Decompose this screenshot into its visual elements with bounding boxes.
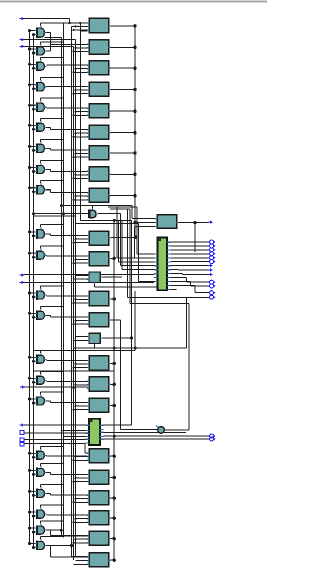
wire U17 in2	[76, 384, 88, 386]
buffer U12	[89, 272, 100, 283]
wire busA to G10	[30, 231, 35, 233]
wire stair8 top	[76, 222, 139, 224]
clock bus vertical lower	[63, 214, 65, 538]
node tap busA G3	[28, 63, 31, 66]
pin DEC1 R10	[167, 277, 171, 279]
wire GM clock top	[92, 206, 94, 208]
register U20	[87, 470, 110, 484]
wire G8 out	[46, 169, 50, 171]
wire clock top G13	[41, 305, 64, 307]
bus vertical x61	[60, 38, 62, 536]
collector bus x135	[134, 26, 136, 237]
wire G7 to U7 in1	[51, 149, 88, 151]
wire rail y208	[110, 208, 130, 210]
node busE tap U4	[75, 89, 77, 91]
wire clock stub G21	[40, 521, 42, 524]
wire DEC1 R8 c	[179, 269, 210, 271]
wire clock stub G12	[40, 286, 42, 289]
node tap busB G4	[32, 87, 35, 90]
output pin O15	[210, 437, 216, 441]
input pin P9	[20, 438, 24, 442]
wire stair9 drop	[129, 209, 131, 304]
node master top tap	[113, 219, 116, 222]
wire G6 out jog	[50, 127, 52, 129]
wire clock top G17	[41, 445, 64, 447]
wire U23 in3	[74, 542, 88, 544]
wire clock stub G4	[40, 78, 42, 81]
output pin Q	[209, 220, 213, 224]
pin DEC2 R5	[100, 438, 104, 440]
node R1 out	[193, 221, 196, 224]
node tap busA G5	[28, 104, 31, 107]
pin DEC1 L2	[154, 257, 158, 259]
node busE tap U18	[75, 405, 77, 407]
wire clock stub G14	[40, 350, 42, 353]
node tap busB G17	[32, 456, 35, 459]
node tap busB G1	[32, 33, 35, 36]
wire U14 in2	[76, 320, 88, 322]
wire G9 out	[46, 189, 50, 191]
AND gate G9	[34, 183, 46, 195]
wire U7 in2	[76, 153, 88, 155]
wire busA to G11	[30, 252, 35, 254]
wire clock top G14	[41, 349, 64, 351]
AND gate G15	[34, 374, 46, 385]
wire U19 in3	[74, 459, 88, 461]
wire busB to G11	[34, 256, 35, 258]
wire clock top G2	[41, 41, 64, 43]
wire G1 out drop	[50, 33, 52, 45]
wire stair1 in	[137, 253, 154, 255]
output pin O1	[210, 240, 216, 244]
wire U11 in3	[74, 262, 88, 264]
wire U11 in2	[76, 259, 88, 261]
wire stair8 drop	[138, 223, 140, 281]
pin DEC1 R8	[167, 269, 171, 271]
node busE tap U14	[75, 320, 77, 322]
input pin P10	[20, 442, 24, 446]
node U19 out junction	[113, 455, 116, 458]
wire G18 out jog	[50, 472, 52, 474]
node U20 out junction	[113, 476, 116, 479]
wire busA to G1	[30, 30, 35, 32]
wire G21 to U23 in1	[51, 535, 88, 537]
wire U19 in1	[85, 452, 88, 454]
node busE tap U5	[75, 111, 77, 113]
AND gate G8	[34, 163, 46, 174]
wire G2 to U2 in1	[51, 43, 88, 45]
wire busB to G4	[34, 88, 35, 90]
wire G9 to U9 in1	[51, 192, 88, 194]
wire clock stub G18	[40, 463, 42, 466]
node busE tap U6	[75, 132, 77, 134]
node tap busA G21	[28, 527, 31, 530]
wire R1 in1	[132, 218, 157, 220]
register U7	[87, 146, 110, 160]
output pin O12	[210, 291, 216, 295]
node U9 out junction	[133, 194, 136, 197]
wire R1 in3 stub	[134, 226, 156, 228]
node busD tap U10	[73, 242, 75, 244]
register U5	[87, 104, 110, 118]
wire U6 out	[111, 132, 136, 134]
wire DEC1 R1 to pin	[171, 241, 209, 243]
wire U12 in2	[74, 278, 89, 280]
wire busA to G8	[30, 167, 35, 169]
wire busA to G5	[30, 104, 35, 106]
node busE tap U23	[75, 538, 77, 540]
wire U16 out	[111, 362, 115, 364]
node busD tap U13	[73, 302, 75, 304]
node tap busA G14	[28, 356, 31, 359]
wire U9 in2	[76, 195, 88, 197]
wire stair5 in	[122, 269, 154, 271]
wire DEC1 R4 to pin	[171, 253, 209, 255]
wire U1 in2	[72, 26, 88, 28]
wire G16 out	[46, 400, 50, 402]
input pin P6	[20, 385, 25, 389]
node U22 out junction	[113, 517, 116, 520]
pin DEC1 L4	[154, 265, 158, 267]
wire rail y371	[34, 370, 115, 372]
wire G14 out to U16	[46, 359, 87, 361]
wire clock top G15	[41, 370, 64, 372]
wire U6 in3	[74, 136, 88, 138]
pin DEC1 L8	[154, 281, 158, 283]
input pin P8	[20, 431, 24, 435]
wire U21 in3	[74, 501, 88, 503]
wire U12 bottom drop	[94, 284, 96, 287]
node busD tap U9	[73, 199, 75, 201]
node GM input tap	[32, 212, 35, 215]
wire busB to G3	[34, 67, 35, 69]
node tap busA G16	[28, 398, 31, 401]
node rail436 tap	[113, 435, 116, 438]
node U6 out junction	[133, 131, 136, 134]
wire stair1 top	[108, 206, 137, 208]
wire U12 out	[102, 276, 122, 278]
node tap busB G5	[32, 108, 35, 111]
register U24	[87, 553, 110, 567]
node busD tap U3	[73, 71, 75, 73]
register U13	[87, 291, 110, 305]
wire busB to G12	[34, 296, 35, 298]
wire G18 to U20 in1	[51, 474, 88, 476]
register U10	[87, 231, 110, 245]
node clock end	[62, 212, 65, 215]
wire U19 out	[111, 455, 115, 457]
wire G10 out jog	[50, 234, 52, 236]
wire G6 out	[46, 126, 50, 128]
wire G16 to U18 in1	[51, 402, 88, 404]
register U9	[87, 188, 110, 202]
wire U11 out	[111, 257, 115, 259]
wire G5 out to U5	[46, 107, 87, 109]
wire U5 in2	[76, 111, 88, 113]
wire stair3 drop	[118, 220, 120, 261]
wire P7 to chip2	[24, 424, 89, 426]
register U16	[87, 356, 110, 370]
wire G19 out	[46, 492, 50, 494]
buffer U15	[89, 333, 100, 343]
wire clock top G18	[41, 462, 64, 464]
pin DEC2 L2	[85, 430, 89, 432]
node busE tap U2	[75, 47, 77, 49]
AND gate G10	[34, 227, 46, 239]
node busE tap U16	[75, 363, 77, 365]
node busE tap U7	[75, 153, 77, 155]
wire U4 in3	[74, 93, 88, 95]
wire DEC1 R5 to pin	[171, 257, 209, 259]
wire clock stub G1	[40, 23, 42, 26]
wire G16 out jog	[50, 401, 52, 403]
wire clock top G10	[41, 224, 64, 226]
wire clock stub G11	[40, 246, 42, 249]
wire busB to G20	[34, 515, 35, 517]
node tap busB G11	[32, 256, 35, 259]
probe C1	[156, 425, 164, 433]
wire clock stub G3	[40, 57, 42, 60]
node busE tap U10	[75, 238, 77, 240]
wire R1 in2 from collector	[135, 221, 156, 223]
wire U8 in2	[76, 174, 88, 176]
wire U21 out	[111, 497, 115, 499]
node tap busB G6	[32, 128, 35, 131]
wire busB to G9	[34, 191, 35, 193]
pin DEC1 R12	[167, 284, 171, 286]
wire U3 out	[111, 67, 136, 69]
wire U1 in1 rail	[41, 22, 88, 24]
wire P3 east	[24, 45, 74, 47]
node tap busB G15	[32, 381, 35, 384]
node tap busA G9	[28, 186, 31, 189]
node U16 out junction	[113, 362, 116, 365]
wire stair2 in	[117, 257, 154, 259]
node tap busB G7	[32, 149, 35, 152]
AND gate G16	[34, 394, 46, 405]
wire clock stub G10	[40, 225, 42, 228]
node U1 in1 x69	[68, 22, 70, 24]
wire busA to G12	[30, 292, 35, 294]
pin DEC1 R11	[167, 281, 171, 283]
node tap busB G21	[32, 531, 35, 534]
register U3	[87, 61, 110, 75]
pin DEC1 L1	[154, 253, 158, 255]
wire clock stub G15	[40, 371, 42, 374]
wire clock top G12	[41, 285, 64, 287]
pin DEC2 R1	[100, 424, 104, 426]
pin DEC2 R2	[100, 428, 104, 430]
wire busB to G2	[34, 52, 35, 54]
node busD tap U22	[73, 521, 75, 523]
node busE tap U22	[75, 518, 77, 520]
wire clock stub G8	[40, 161, 42, 164]
wire U15 in2	[74, 339, 89, 341]
node busD tap U4	[73, 93, 75, 95]
input pin P3	[20, 45, 25, 49]
wire DEC1 R10 c	[187, 281, 210, 283]
register R1	[157, 215, 177, 229]
node tap busA G20	[28, 511, 31, 514]
wire U4 in2	[76, 89, 88, 91]
wire R1 out drop	[194, 223, 196, 252]
wire busA to G3	[30, 63, 35, 65]
wire P8 to chip2	[24, 432, 88, 434]
node busE tap U21	[75, 498, 77, 500]
wire U20 in2	[76, 477, 88, 479]
register U14	[87, 313, 110, 327]
node U11 out junction	[113, 257, 116, 260]
bus vertical x69	[69, 19, 71, 24]
node tap busA G4	[28, 83, 31, 86]
node tap busA G11	[28, 252, 31, 255]
collector master x114	[113, 220, 115, 560]
wire U1 in2	[76, 25, 88, 27]
wire DEC1 R6 to pin	[171, 261, 209, 263]
wire GM top rail	[61, 205, 132, 207]
wire DEC1 R8 a	[171, 269, 179, 271]
wire U5 out	[111, 110, 136, 112]
wire U12 in1	[76, 275, 89, 277]
pin DEC1 R9	[167, 273, 171, 275]
wire G17 out to U19	[46, 455, 87, 457]
wire y286 rail	[95, 286, 157, 288]
node busE tap U8	[75, 174, 77, 176]
AND gate G13	[34, 309, 46, 320]
wire stair1 drop	[136, 207, 138, 254]
wire busB to G14	[34, 360, 35, 362]
node tap busA G12	[28, 292, 31, 295]
pin DEC1 R6	[167, 261, 171, 263]
wire G7 out	[46, 147, 50, 149]
node busD tap U21	[73, 501, 75, 503]
node busD tap U20	[73, 481, 75, 483]
node tap busA G17	[28, 452, 31, 455]
AND gate G12	[34, 288, 46, 299]
wire G10 to U10 in1	[51, 235, 88, 237]
wire U1 in3	[80, 30, 87, 32]
wire G8 to U8 in1	[51, 170, 88, 172]
node U1 out junction	[133, 24, 136, 27]
bus vertical x80	[79, 23, 81, 220]
wire clock stub G5	[40, 98, 42, 101]
node tap busA G19	[28, 490, 31, 493]
AND gate G7	[34, 142, 46, 154]
pin DEC1 L3	[154, 261, 158, 263]
wire G9 out jog	[50, 190, 52, 193]
wire U23 in1	[61, 535, 87, 537]
wire U10 in2	[76, 238, 88, 240]
wire P2 east	[24, 39, 76, 41]
wire clock stub G13	[40, 306, 42, 309]
input pin P7	[20, 423, 25, 427]
wire U21 in2	[76, 498, 88, 500]
wire DEC1 R12 b	[194, 285, 196, 292]
wire y348 rail	[74, 347, 187, 349]
wire busB to G1	[34, 34, 35, 36]
wire DEC2 L2 drop	[60, 425, 62, 431]
wire U20 out	[111, 477, 115, 479]
wire R1 out	[179, 222, 209, 224]
wire clock top G7	[41, 138, 64, 140]
wire busB to G7	[34, 149, 35, 151]
bus D vertical (in3)	[73, 46, 75, 560]
output pin O14	[210, 434, 216, 438]
wire C1 in rail	[120, 429, 157, 431]
pin DEC2 R4	[100, 435, 104, 437]
input pin P4	[20, 273, 25, 277]
wire clock top G9	[41, 180, 64, 182]
wire G22 out jog	[50, 545, 52, 557]
node tap busA G1	[28, 29, 31, 32]
wire busA to G20	[30, 511, 35, 513]
wire U20 in3	[74, 481, 88, 483]
pin DEC1 R4	[167, 253, 171, 255]
output pin O6	[210, 260, 216, 264]
wire busA to G15	[30, 377, 35, 379]
wire DEC1 R11 c	[191, 285, 209, 287]
output pin O9	[209, 273, 213, 277]
register U8	[87, 167, 110, 181]
wire U9 in3	[74, 199, 88, 201]
wire clock stub G6	[40, 118, 42, 121]
node busD tap U6	[73, 136, 75, 138]
wire G21 out	[46, 529, 50, 531]
wire U7 in3	[74, 156, 88, 158]
wire G1 out	[46, 32, 50, 34]
wire U22 in3	[74, 521, 88, 523]
output pin O11	[210, 284, 216, 288]
wire G10 out	[46, 233, 50, 235]
node busD tap U18	[73, 409, 75, 411]
wire G12 out to U13	[46, 295, 87, 297]
wire DEC1 R10 b	[186, 278, 188, 283]
AND gate GM	[88, 208, 98, 219]
wire U13 out	[111, 298, 115, 300]
wire out13 rail	[128, 296, 209, 298]
wire busB to G21	[34, 531, 35, 533]
node U24 out junction	[113, 559, 116, 562]
frame top border	[0, 1, 267, 3]
wire clock stub G22	[40, 536, 42, 539]
node U15 out tap	[130, 337, 133, 340]
wire U15 bottom join	[94, 343, 96, 348]
wire busB to G16	[34, 402, 35, 404]
wire C1 feed top	[130, 302, 189, 304]
pin DEC2 L1	[85, 424, 89, 426]
wire long drop x131	[131, 220, 133, 425]
node U10 out junction	[134, 236, 137, 239]
wire x135 riser	[134, 291, 136, 351]
wire U22 in2	[76, 518, 88, 520]
wire G22 out	[46, 544, 50, 546]
pin DEC1 R7	[167, 265, 171, 267]
register U1	[87, 18, 110, 32]
node busE tap U1	[75, 25, 77, 27]
wire DEC1 R11 b	[190, 281, 192, 286]
wire P5 to decoder	[24, 281, 154, 283]
wire U9 out	[111, 195, 136, 197]
node busD tap U19	[73, 459, 75, 461]
node G22 join	[70, 544, 73, 547]
wire G8 out jog	[50, 170, 52, 172]
wire DEC1 R2 to pin	[171, 245, 209, 247]
wire U24 out	[111, 559, 115, 561]
wire U6 in2	[76, 132, 88, 134]
wire P6 to U17 in3	[24, 386, 88, 388]
AND gate G3	[34, 60, 46, 71]
wire x80 drop	[79, 23, 81, 31]
